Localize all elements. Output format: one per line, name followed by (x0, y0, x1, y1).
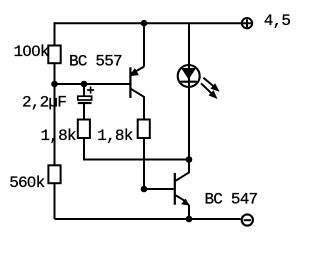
svg-text:4,5: 4,5 (264, 12, 291, 30)
svg-text:100k: 100k (14, 43, 49, 61)
svg-text:1,8k: 1,8k (41, 127, 76, 145)
svg-text:560k: 560k (9, 174, 44, 192)
svg-text:BC 557: BC 557 (69, 52, 122, 70)
svg-text:1,8k: 1,8k (97, 127, 132, 145)
svg-text:BC 547: BC 547 (205, 191, 258, 209)
svg-text:2,2µF: 2,2µF (22, 93, 66, 111)
